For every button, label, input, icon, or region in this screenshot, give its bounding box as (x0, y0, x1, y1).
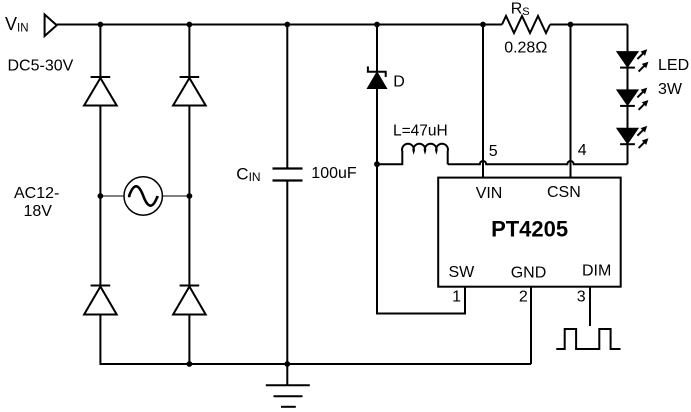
node AC right (187, 193, 193, 199)
wire pin 2 GND (530, 287, 532, 364)
wire bridge right leg (188, 25, 190, 365)
IC U1 PT4205 box (438, 178, 621, 287)
node bottom rail / ground (284, 361, 290, 367)
inductor L (377, 144, 448, 165)
node top rail / RS left (480, 22, 486, 28)
svg-text:GND: GND (511, 264, 547, 281)
diode D2 (bridge upper right) (173, 77, 206, 106)
svg-text:DC5-30V: DC5-30V (8, 57, 74, 74)
wire L to LED return with hops (448, 161, 628, 164)
wire bridge left leg and bottom rail (100, 25, 531, 365)
AC source (124, 177, 162, 215)
svg-text:VIN: VIN (476, 185, 503, 202)
svg-text:D: D (393, 74, 405, 91)
svg-text:LED: LED (658, 57, 689, 74)
svg-text:CSN: CSN (547, 184, 581, 201)
wire pin 5 (482, 25, 484, 178)
PWM waveform on DIM (556, 329, 620, 349)
svg-text:18V: 18V (24, 203, 53, 220)
ground (266, 364, 310, 407)
wire AC row (100, 195, 189, 197)
svg-text:0.28Ω: 0.28Ω (504, 39, 547, 56)
diode D3 (bridge lower left) (84, 286, 117, 315)
svg-text:DIM: DIM (582, 262, 611, 279)
svg-text:3: 3 (577, 288, 586, 305)
diode D1 (bridge upper left) (84, 77, 117, 106)
capacitor CIN (273, 25, 303, 365)
diode D4 (bridge lower right) (173, 286, 206, 315)
wire pin 3 DIM (589, 287, 591, 326)
svg-text:L=47uH: L=47uH (393, 122, 448, 139)
node AC left (98, 193, 104, 199)
resistor RS (502, 16, 550, 33)
svg-text:PT4205: PT4205 (491, 216, 568, 241)
svg-text:4: 4 (578, 142, 587, 159)
LED LED1 (618, 49, 649, 71)
node top rail / CIN (284, 22, 290, 28)
svg-text:2: 2 (519, 288, 528, 305)
svg-text:1: 1 (452, 288, 461, 305)
node top rail / RS right (568, 22, 574, 28)
svg-text:3W: 3W (658, 81, 683, 98)
svg-text:5: 5 (489, 143, 498, 160)
node top rail / bridge left (98, 22, 104, 28)
wire pin 1 SW (377, 164, 465, 313)
svg-text:AC12-: AC12- (14, 185, 59, 202)
wire pin 4 (570, 25, 572, 178)
diode D (schottky) (368, 25, 386, 165)
svg-text:SW: SW (449, 264, 476, 281)
wire LED branch vertical (627, 25, 629, 165)
node top rail / diode D (374, 22, 380, 28)
input port symbol VIN (45, 15, 57, 37)
LED LED3 (618, 126, 649, 148)
node bottom rail / bridge right (187, 361, 193, 367)
node SW / L / D (374, 161, 380, 167)
svg-text:100uF: 100uF (311, 165, 357, 182)
wire top rail (57, 24, 628, 26)
node top rail / bridge right (187, 22, 193, 28)
LED LED2 (618, 88, 649, 110)
